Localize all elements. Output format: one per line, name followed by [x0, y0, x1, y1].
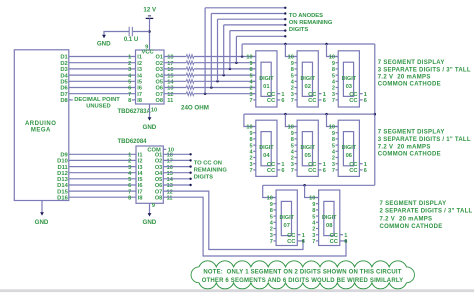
wire drop to digit 06 pin 10 — [327, 114, 339, 126]
node main bus tap row2 — [374, 113, 377, 116]
svg-text:14: 14 — [167, 177, 174, 183]
display 01 pin 7 stub — [253, 99, 256, 101]
svg-text:I8: I8 — [138, 195, 143, 201]
wire D12 Arduino to U2 pin 4 — [69, 172, 136, 174]
display 07 pin 5 stub — [274, 215, 277, 217]
svg-text:DECIMAL POINT: DECIMAL POINT — [74, 97, 120, 103]
svg-text:CC: CC — [308, 168, 317, 174]
svg-text:DIGITS: DIGITS — [289, 27, 308, 33]
svg-text:5: 5 — [270, 214, 273, 220]
svg-text:7.2 V 20 mAMPS: 7.2 V 20 mAMPS — [378, 145, 431, 151]
node cathode stub end 2 — [189, 159, 191, 161]
display 05 pin 7 stub — [295, 169, 298, 171]
svg-text:9: 9 — [291, 61, 294, 67]
display 08 pin 4 stub — [316, 221, 319, 223]
display 07 pin 3 stub — [274, 234, 277, 236]
svg-text:O1: O1 — [155, 153, 162, 159]
svg-text:O6: O6 — [155, 183, 162, 189]
svg-text:01: 01 — [263, 84, 270, 90]
svg-text:2: 2 — [332, 86, 335, 92]
svg-text:3: 3 — [291, 162, 294, 168]
display 01 pin 2 stub — [253, 87, 256, 89]
resistor R6 240 ohm — [186, 86, 194, 90]
svg-text:O7: O7 — [155, 189, 162, 195]
svg-text:7: 7 — [249, 168, 252, 174]
svg-text:CC: CC — [267, 92, 276, 98]
svg-text:5: 5 — [332, 73, 335, 79]
svg-text:DIGITS: DIGITS — [194, 174, 213, 180]
display 08 pin 3 stub — [316, 234, 319, 236]
display DIGIT 05 inner window — [302, 132, 312, 166]
display 02 CC pin 6 — [318, 99, 321, 101]
svg-text:7: 7 — [128, 92, 131, 98]
svg-text:5: 5 — [332, 143, 335, 149]
wire D11 Arduino to U2 pin 3 — [69, 166, 136, 168]
svg-text:3: 3 — [332, 162, 335, 168]
svg-text:6: 6 — [302, 239, 305, 245]
svg-text:7: 7 — [270, 239, 273, 245]
svg-text:2: 2 — [249, 156, 252, 162]
svg-text:24O OHM: 24O OHM — [181, 105, 209, 112]
wire U1 pin 12 output row — [164, 93, 186, 95]
svg-text:GND: GND — [97, 41, 111, 48]
svg-text:O3: O3 — [156, 67, 163, 73]
node anode stub end 4 — [284, 18, 286, 20]
svg-text:DIGIT: DIGIT — [301, 76, 316, 82]
svg-text:7 SEGMENT DISPLAY: 7 SEGMENT DISPLAY — [378, 60, 445, 66]
svg-text:DIGIT: DIGIT — [342, 76, 357, 82]
svg-text:I1: I1 — [138, 153, 143, 159]
svg-text:2: 2 — [128, 61, 131, 67]
svg-text:CC: CC — [349, 168, 358, 174]
svg-text:D16: D16 — [57, 195, 68, 201]
svg-text:D14: D14 — [57, 183, 68, 189]
display 02 pin 9 stub — [295, 62, 298, 64]
display DIGIT 01 inner window — [261, 62, 271, 96]
display DIGIT 08 box — [319, 190, 340, 246]
display DIGIT 07 box — [276, 190, 297, 246]
svg-text:7.2 V 20 mAMPS: 7.2 V 20 mAMPS — [380, 216, 433, 222]
svg-text:7: 7 — [249, 98, 252, 104]
display 06 pin 3 stub — [336, 163, 339, 165]
svg-text:7: 7 — [291, 168, 294, 174]
svg-text:8: 8 — [291, 137, 294, 143]
display 08 CC pin 6 — [340, 240, 347, 242]
svg-text:O5: O5 — [155, 177, 162, 183]
svg-text:I7: I7 — [138, 189, 143, 195]
display 02 pin 4 stub — [295, 80, 298, 82]
wire vertical riser row 6 — [210, 14, 212, 88]
wire U1 pin 10 to ground — [149, 104, 151, 117]
svg-text:10: 10 — [267, 196, 273, 202]
wire U2 pin 9 to ground — [149, 203, 151, 213]
svg-text:I7: I7 — [137, 92, 142, 98]
wire anode stub 6 — [205, 7, 285, 9]
svg-text:CC: CC — [308, 162, 317, 168]
svg-text:6: 6 — [364, 98, 367, 104]
svg-text:9: 9 — [270, 202, 273, 208]
display 04 pin 4 stub — [253, 150, 256, 152]
display 01 pin 5 stub — [253, 74, 256, 76]
svg-text:D12: D12 — [57, 171, 68, 177]
node junction row 7 — [204, 92, 207, 95]
svg-text:D2: D2 — [60, 61, 67, 67]
svg-text:1: 1 — [323, 92, 326, 98]
svg-text:3: 3 — [128, 67, 131, 73]
svg-text:13: 13 — [167, 183, 173, 189]
display DIGIT 03 box — [338, 51, 359, 107]
display DIGIT 02 inner window — [302, 62, 312, 96]
svg-text:2: 2 — [291, 86, 294, 92]
node anode stub end 3 — [284, 24, 286, 26]
display DIGIT 03 inner window — [343, 62, 353, 96]
svg-text:3: 3 — [291, 92, 294, 98]
svg-text:D3: D3 — [60, 67, 68, 73]
display 02 pin 10 stub — [295, 56, 298, 58]
svg-text:NOTE: ONLY 1 SEGMENT ON 2 DIG: NOTE: ONLY 1 SEGMENT ON 2 DIGITS SHOWN O… — [203, 270, 401, 276]
display 06 pin 4 stub — [336, 150, 339, 152]
svg-text:I5: I5 — [138, 177, 143, 183]
display 01 CC pin 6 — [277, 99, 280, 101]
display 07 pin 2 stub — [274, 228, 277, 230]
svg-text:11: 11 — [167, 98, 173, 104]
display 07 pin 8 stub — [274, 209, 277, 211]
capacitor C1 0.1 U plates — [128, 27, 130, 37]
display 03 pin 10 stub — [336, 56, 339, 58]
wire D14 Arduino to U2 pin 6 — [69, 184, 136, 186]
svg-text:10: 10 — [246, 125, 252, 131]
display 06 pin 2 stub — [336, 157, 339, 159]
svg-text:10: 10 — [151, 108, 157, 114]
display 01 pin 4 stub — [253, 80, 256, 82]
svg-text:5: 5 — [128, 80, 131, 86]
node cathode stub end 4 — [189, 172, 191, 174]
display 04 pin 9 stub — [253, 132, 256, 134]
svg-text:8: 8 — [291, 67, 294, 73]
svg-text:6: 6 — [128, 183, 131, 189]
display DIGIT 06 inner window — [343, 132, 353, 166]
wire anode stub 4 — [218, 18, 286, 20]
svg-text:CC: CC — [267, 162, 276, 168]
display 08 pin 10 stub — [316, 197, 319, 199]
svg-text:3: 3 — [128, 165, 131, 171]
svg-text:16: 16 — [167, 67, 173, 73]
ground GND (Arduino) — [40, 212, 44, 215]
svg-text:COMMON CATHODE: COMMON CATHODE — [380, 224, 443, 230]
svg-text:D8: D8 — [60, 98, 68, 104]
display 07 pin 4 stub — [274, 221, 277, 223]
display 05 pin 10 stub — [295, 126, 298, 128]
svg-text:GND: GND — [35, 219, 49, 226]
ground GND (capacitor) — [102, 35, 106, 38]
svg-text:COMMON CATHODE: COMMON CATHODE — [378, 82, 441, 88]
wire U2 pin 17 cathode stub — [163, 159, 190, 161]
node anode stub end 6 — [284, 7, 286, 9]
svg-text:1: 1 — [128, 55, 131, 61]
svg-text:DIGIT: DIGIT — [259, 145, 274, 151]
display 07 pin 10 stub — [274, 197, 277, 199]
display 05 pin 5 stub — [295, 144, 298, 146]
display 06 CC pin 6 — [359, 169, 362, 171]
wire U1 pin 17 output row — [164, 62, 186, 64]
display 07 CC pin 6 — [297, 240, 304, 242]
svg-text:O4: O4 — [155, 171, 163, 177]
svg-text:1: 1 — [364, 162, 367, 168]
driver IC U1 TBD62783A box — [136, 50, 165, 104]
svg-text:DIGIT: DIGIT — [301, 145, 316, 151]
display 04 pin 8 stub — [253, 138, 256, 140]
node junction row 6 — [210, 86, 213, 89]
svg-text:GND: GND — [143, 124, 157, 131]
svg-text:1: 1 — [302, 233, 305, 239]
display 02 pin 8 stub — [295, 68, 298, 70]
svg-text:9: 9 — [291, 131, 294, 137]
wire vertical riser row 3 — [229, 31, 231, 69]
display 06 pin 10 stub — [336, 126, 339, 128]
svg-text:6: 6 — [323, 168, 326, 174]
svg-text:08: 08 — [326, 223, 333, 229]
display DIGIT 05 box — [297, 120, 318, 176]
svg-text:CC: CC — [349, 162, 358, 168]
svg-text:6: 6 — [364, 168, 367, 174]
svg-text:3 SEPARATE DIGITS / 3" TALL: 3 SEPARATE DIGITS / 3" TALL — [378, 67, 471, 73]
wire 12V to junction and chip U1 VCC pin 9 — [149, 18, 151, 50]
node bus2 tap digit06 — [325, 113, 328, 116]
svg-text:15: 15 — [167, 73, 173, 79]
svg-text:O7: O7 — [156, 92, 163, 98]
svg-text:12: 12 — [167, 189, 173, 195]
wire D7 Arduino to U1 pin 7 — [69, 93, 136, 95]
resistor R4 240 ohm — [186, 73, 194, 77]
display 03 pin 8 stub — [336, 68, 339, 70]
wire Arduino GND — [41, 201, 43, 213]
svg-text:5: 5 — [291, 73, 294, 79]
svg-text:0.1 U: 0.1 U — [124, 37, 138, 43]
svg-text:TBD62783A: TBD62783A — [118, 109, 152, 115]
svg-text:O1: O1 — [156, 55, 163, 61]
svg-text:DIGIT: DIGIT — [259, 76, 274, 82]
svg-text:1: 1 — [281, 162, 284, 168]
svg-text:ON REMAINING: ON REMAINING — [289, 20, 333, 26]
display 01 pin 3 stub — [253, 93, 256, 95]
svg-text:3: 3 — [270, 233, 273, 239]
svg-text:8: 8 — [312, 208, 315, 214]
wire segment bus row2 — [244, 113, 375, 115]
wire D1 Arduino to U1 pin 1 — [69, 56, 136, 58]
svg-text:D7: D7 — [60, 92, 67, 98]
svg-text:O2: O2 — [155, 159, 162, 165]
svg-text:7: 7 — [332, 98, 335, 104]
svg-text:I6: I6 — [138, 183, 143, 189]
wire vertical riser row 2 — [235, 36, 237, 62]
display 03 pin 2 stub — [336, 87, 339, 89]
svg-text:O6: O6 — [156, 86, 163, 92]
wire U2 pin 18 cathode stub — [163, 153, 190, 155]
svg-text:ARDUINO: ARDUINO — [25, 121, 57, 127]
svg-text:2: 2 — [291, 156, 294, 162]
display 05 pin 9 stub — [295, 132, 298, 134]
svg-text:CC: CC — [287, 233, 296, 239]
display 05 pin 3 stub — [295, 163, 298, 165]
svg-text:10: 10 — [288, 55, 294, 61]
svg-text:18: 18 — [167, 55, 173, 61]
resistor R2 240 ohm — [186, 61, 194, 65]
wire drop to digit 03 pin 10 — [327, 44, 339, 57]
svg-text:10: 10 — [288, 125, 294, 131]
svg-text:2: 2 — [249, 86, 252, 92]
svg-text:7.2 V 20 mAMPS: 7.2 V 20 mAMPS — [378, 75, 431, 81]
svg-text:O8: O8 — [156, 98, 163, 104]
svg-text:O8: O8 — [155, 195, 162, 201]
wire anode stub 5 — [211, 13, 285, 15]
node bus1 tap digit03 — [325, 43, 328, 46]
svg-text:05: 05 — [304, 153, 311, 159]
display DIGIT 04 box — [256, 120, 277, 176]
svg-text:D4: D4 — [60, 73, 68, 79]
svg-text:16: 16 — [167, 165, 173, 171]
display DIGIT 04 inner window — [261, 132, 271, 166]
svg-text:D15: D15 — [57, 189, 68, 195]
node anode stub end 1 — [284, 35, 286, 37]
svg-text:MEGA: MEGA — [31, 128, 51, 134]
svg-text:15: 15 — [167, 171, 173, 177]
svg-text:O4: O4 — [156, 73, 164, 79]
svg-text:04: 04 — [263, 153, 270, 159]
svg-text:D9: D9 — [60, 153, 68, 159]
wire D8 stub (decimal point unused) — [69, 99, 73, 101]
node anode stub end 2 — [284, 29, 286, 31]
svg-text:5: 5 — [291, 143, 294, 149]
wire vertical riser row 4 — [223, 25, 225, 75]
svg-text:I3: I3 — [137, 67, 142, 73]
svg-text:7: 7 — [128, 189, 131, 195]
svg-text:DIGIT: DIGIT — [342, 145, 357, 151]
svg-text:8: 8 — [249, 67, 252, 73]
svg-text:D11: D11 — [57, 165, 68, 171]
svg-text:7: 7 — [332, 168, 335, 174]
node junction row 5 — [216, 80, 219, 83]
svg-text:3: 3 — [312, 233, 315, 239]
display 05 pin 8 stub — [295, 138, 298, 140]
wire D4 Arduino to U1 pin 4 — [69, 74, 136, 76]
display 06 pin 5 stub — [336, 144, 339, 146]
svg-text:10: 10 — [309, 196, 315, 202]
wire drop to digit 04 pin 10 — [244, 114, 256, 126]
node bus1 tap digit02 — [284, 43, 287, 46]
U2 COM pin 10 stub — [163, 148, 166, 150]
svg-text:D10: D10 — [57, 159, 68, 165]
svg-text:I1: I1 — [137, 55, 142, 61]
svg-text:DIGIT: DIGIT — [322, 215, 337, 221]
svg-text:VCC: VCC — [141, 50, 154, 56]
wire D10 Arduino to U2 pin 2 — [69, 159, 136, 161]
display 08 pin 7 stub — [316, 240, 319, 242]
driver IC U2 TBD62084 box — [136, 146, 163, 203]
wire U2 pin 13 cathode stub — [163, 184, 190, 186]
node cathode stub end 6 — [189, 184, 191, 186]
svg-text:9: 9 — [332, 131, 335, 137]
display 08 pin 9 stub — [316, 203, 319, 205]
svg-text:3: 3 — [249, 92, 252, 98]
wire anode stub 3 — [224, 24, 286, 26]
svg-text:CC: CC — [267, 98, 276, 104]
svg-text:2: 2 — [270, 227, 273, 233]
power symbol 12V bar — [146, 17, 154, 19]
svg-text:1: 1 — [323, 162, 326, 168]
display 03 CC pin 6 — [359, 99, 362, 101]
svg-text:I2: I2 — [138, 159, 143, 165]
svg-text:9: 9 — [332, 61, 335, 67]
svg-text:I5: I5 — [137, 80, 142, 86]
svg-text:10: 10 — [329, 125, 335, 131]
wire D15 Arduino to U2 pin 7 — [69, 190, 136, 192]
resistor R1 240 ohm — [186, 55, 194, 59]
svg-text:CC: CC — [330, 239, 339, 245]
svg-text:D5: D5 — [60, 80, 68, 86]
display 02 pin 5 stub — [295, 74, 298, 76]
svg-text:O3: O3 — [155, 165, 162, 171]
svg-text:2: 2 — [128, 159, 131, 165]
display 03 pin 9 stub — [336, 62, 339, 64]
display 07 pin 7 stub — [274, 240, 277, 242]
svg-text:O2: O2 — [156, 61, 163, 67]
resistor R3 240 ohm — [186, 67, 194, 71]
svg-text:18: 18 — [167, 153, 173, 159]
svg-text:TO CC ON: TO CC ON — [194, 160, 222, 166]
display 06 pin 7 stub — [336, 169, 339, 171]
svg-text:8: 8 — [270, 208, 273, 214]
svg-text:9: 9 — [152, 203, 155, 209]
svg-text:6: 6 — [344, 239, 347, 245]
svg-text:12: 12 — [167, 92, 173, 98]
node digit 07 CC junction — [302, 240, 304, 242]
svg-text:5: 5 — [128, 177, 131, 183]
display 05 pin 4 stub — [295, 150, 298, 152]
wire D6 Arduino to U1 pin 6 — [69, 87, 136, 89]
display DIGIT 08 inner window — [324, 201, 334, 235]
note cloud bubble — [191, 261, 414, 289]
svg-text:7: 7 — [291, 98, 294, 104]
wire main vertical bus right side — [374, 44, 376, 185]
wire junction to capacitor — [133, 31, 150, 33]
svg-text:D6: D6 — [60, 86, 68, 92]
display DIGIT 07 inner window — [281, 201, 291, 235]
node anode stub end 5 — [284, 12, 286, 14]
display 02 pin 3 stub — [295, 93, 298, 95]
node cathode stub end 3 — [189, 165, 191, 167]
wire D16 Arduino to U2 pin 8 — [69, 196, 136, 198]
display 06 pin 9 stub — [336, 132, 339, 134]
node bus2 tap digit05 — [284, 113, 287, 116]
svg-text:I8: I8 — [137, 98, 142, 104]
svg-text:13: 13 — [167, 86, 173, 92]
svg-text:REMAINING: REMAINING — [194, 167, 228, 173]
svg-text:1: 1 — [364, 92, 367, 98]
svg-text:COMMON CATHODE: COMMON CATHODE — [378, 152, 441, 158]
svg-text:CC: CC — [308, 98, 317, 104]
svg-text:CC: CC — [349, 98, 358, 104]
wire U1 pin 13 output row — [164, 87, 186, 89]
wire U2 pin 12 to digit 07 CC — [163, 191, 303, 249]
display 03 pin 5 stub — [336, 74, 339, 76]
node cathode stub end 5 — [189, 178, 191, 180]
svg-text:02: 02 — [304, 84, 310, 90]
svg-text:8: 8 — [249, 137, 252, 143]
node junction row 3 — [229, 68, 232, 71]
svg-text:CC: CC — [330, 233, 339, 239]
wire drop to digit 07 pin 10 — [263, 185, 276, 197]
wire D3 Arduino to U1 pin 3 — [69, 68, 136, 70]
